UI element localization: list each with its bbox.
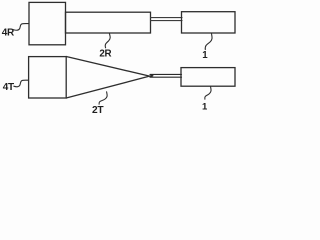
leader for 1 (top): [205, 34, 212, 50]
wire (top rod lower line): [151, 20, 183, 22]
taper 2T lower edge: [66, 75, 153, 98]
box 4R: [29, 2, 66, 44]
waveguide 2R: [66, 12, 151, 33]
taper 2T upper edge: [66, 57, 153, 77]
svg-text:2T: 2T: [92, 105, 104, 116]
leader for 2R: [105, 33, 110, 47]
box 4T: [29, 57, 67, 98]
leader for 4T: [14, 80, 29, 87]
leader for 1 (bottom): [205, 86, 211, 99]
wire (top rod upper line): [151, 17, 183, 19]
svg-text:1: 1: [202, 50, 208, 61]
svg-text:1: 1: [202, 102, 208, 113]
leader for 2T: [99, 92, 107, 104]
wire (bottom rod lower line): [150, 76, 182, 78]
leader for 4R: [13, 24, 29, 31]
block 1 (bottom): [181, 68, 235, 87]
svg-text:2R: 2R: [99, 48, 111, 59]
svg-text:4T: 4T: [3, 82, 14, 93]
block 1 (top): [182, 12, 236, 33]
svg-text:4R: 4R: [2, 28, 15, 39]
wire (bottom rod upper line): [150, 73, 182, 75]
